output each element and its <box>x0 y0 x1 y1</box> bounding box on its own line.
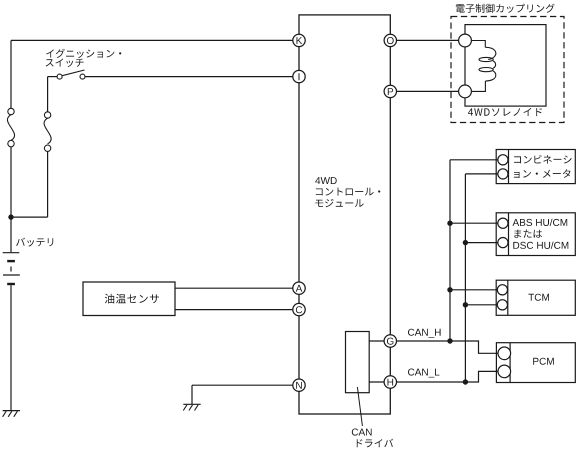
4WD control module U1 <box>299 15 390 414</box>
solenoid pin bottom <box>459 85 472 98</box>
node ABS pin2 junction <box>463 240 468 245</box>
CAN driver label <box>352 429 394 448</box>
solenoid coil L1 <box>472 41 496 92</box>
terminal K <box>293 34 305 46</box>
oil temperature sensor box <box>83 282 175 316</box>
module label line2 <box>316 188 381 196</box>
node junction battery <box>8 214 13 219</box>
wire TCM pin2 <box>465 304 497 306</box>
wire battery feed top <box>11 39 294 41</box>
wire sensor to C <box>175 309 294 311</box>
battery BAT <box>3 253 20 284</box>
node TCM pin2 junction <box>463 302 468 307</box>
wire meter pin2 <box>465 173 497 175</box>
CAN_H label <box>408 329 441 338</box>
terminal O <box>384 34 396 46</box>
module label 4WD <box>315 177 337 184</box>
fuse F1 <box>7 108 14 147</box>
CAN_L label <box>408 369 439 378</box>
4WD solenoid box <box>465 25 546 107</box>
wire CAN driver to H <box>369 381 390 383</box>
terminal H <box>384 376 396 388</box>
CAN_L wire <box>390 371 498 382</box>
wire left vertical to junction <box>10 147 12 217</box>
wire fuse2 down <box>47 151 49 217</box>
ignition switch SW <box>48 70 85 79</box>
ground battery <box>3 411 20 417</box>
PCM box <box>496 343 575 383</box>
wire meter pin1 <box>450 159 498 161</box>
node CAN_L junction <box>463 379 468 384</box>
wire CAN driver to G <box>369 340 390 342</box>
CAN_L bus vertical <box>464 174 466 382</box>
solenoid pin top <box>459 34 472 47</box>
CAN driver leader <box>357 387 362 426</box>
wire ABS pin2 <box>465 242 497 244</box>
terminal I <box>293 70 305 82</box>
CAN_H wire <box>390 341 498 353</box>
ignition switch label <box>46 49 122 67</box>
wire left vertical upper <box>10 40 12 108</box>
wire battery to ground <box>10 285 12 410</box>
ABS/DSC HU/CM box <box>496 213 575 256</box>
wire N to ground <box>192 385 294 404</box>
wire sensor to A <box>175 287 294 289</box>
electronic control coupling label <box>456 4 555 13</box>
electronic control coupling box <box>451 17 564 123</box>
battery label <box>16 238 53 247</box>
terminal C <box>293 303 305 315</box>
node TCM pin1 junction <box>447 287 452 292</box>
wire O to solenoid <box>390 39 459 41</box>
wire junction horizontal <box>11 216 48 218</box>
wire TCM pin1 <box>450 289 498 291</box>
wire ABS pin1 <box>450 222 498 224</box>
wire switch to I <box>85 76 294 78</box>
wire P to solenoid <box>390 90 459 92</box>
wire switch down <box>47 77 49 112</box>
module label line3 <box>315 199 363 207</box>
wire junction to battery <box>10 217 12 252</box>
CAN_H bus vertical <box>449 160 451 341</box>
node ABS pin1 junction <box>447 221 452 226</box>
combination meter box <box>496 150 575 184</box>
terminal G <box>384 335 396 347</box>
CAN driver box <box>346 332 370 393</box>
4WD solenoid label <box>468 108 542 116</box>
TCM box <box>496 280 575 315</box>
terminal P <box>384 85 396 97</box>
fuse F2 <box>44 112 51 152</box>
ground module <box>183 404 200 410</box>
node CAN_H junction <box>447 338 452 343</box>
terminal N <box>293 379 305 391</box>
terminal A <box>293 282 305 294</box>
